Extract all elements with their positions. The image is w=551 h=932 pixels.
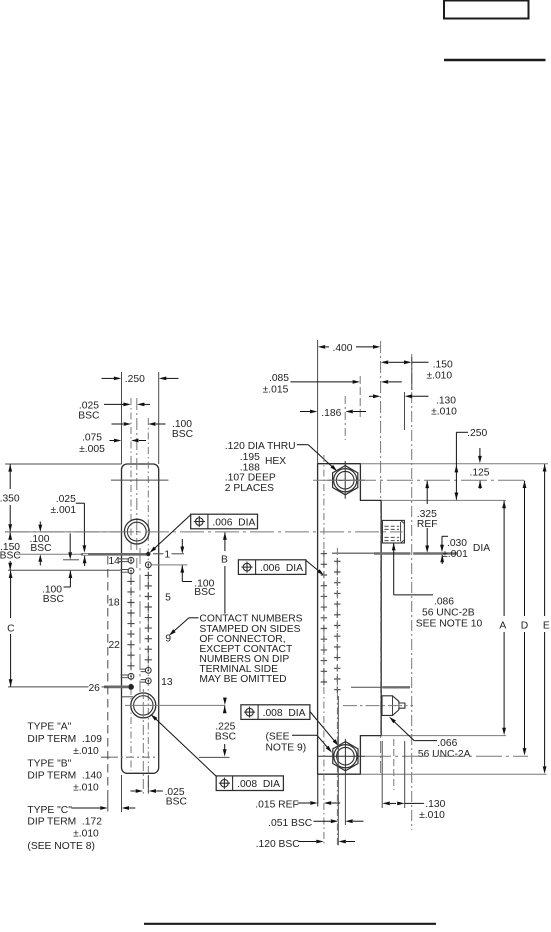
hex top center cross <box>328 479 366 481</box>
mating face line <box>111 479 169 481</box>
svg-text:REF: REF <box>417 519 438 530</box>
dim .225 lower ref line <box>199 756 230 758</box>
bottom hole center vertical <box>142 689 144 794</box>
bottom hole center ext line <box>125 704 225 706</box>
dim .025 terminal thickness <box>76 502 85 504</box>
contact 1 filled circle <box>146 552 150 556</box>
svg-text:C: C <box>7 623 15 634</box>
right view contact plus marks column 2 <box>334 558 340 564</box>
dim .130 top <box>369 395 371 397</box>
dim .186 <box>300 411 310 413</box>
svg-text:56 UNC-2A: 56 UNC-2A <box>418 749 471 760</box>
svg-text:±.010: ±.010 <box>73 746 99 757</box>
fcf .006 DIA upper <box>191 514 258 529</box>
terminal pin contact 1 <box>82 553 148 556</box>
title block box top right <box>444 1 529 19</box>
center line contact column 14-26 <box>130 398 132 771</box>
hex center ext to D <box>313 479 528 481</box>
dim .350 <box>9 464 11 489</box>
ext step bottom <box>381 735 506 737</box>
svg-text:BSC: BSC <box>215 732 237 743</box>
svg-text:±.015: ±.015 <box>263 385 289 396</box>
type C leader arrow <box>72 807 101 809</box>
svg-text:BSC: BSC <box>30 543 52 554</box>
hex bottom axis ext below <box>344 774 346 825</box>
fcf4 leader to bottom hole <box>154 717 216 776</box>
svg-text:±.010: ±.010 <box>73 829 99 840</box>
svg-text:B: B <box>221 554 228 565</box>
svg-text:E: E <box>543 620 550 631</box>
dim C <box>9 571 13 578</box>
svg-text:DIP TERM .109: DIP TERM .109 <box>27 734 102 745</box>
dim .100 BSC mid arrows <box>69 534 71 553</box>
svg-text:BSC: BSC <box>78 410 100 421</box>
svg-text:A: A <box>499 620 506 631</box>
ext line 404.5 upper <box>404 392 406 430</box>
svg-text:±.001: ±.001 <box>50 505 76 516</box>
svg-text:±.010: ±.010 <box>419 810 445 821</box>
retention washer bottom <box>351 686 383 688</box>
svg-text:.008 DIA: .008 DIA <box>237 779 280 790</box>
jackscrew axis line <box>343 705 413 707</box>
dim .325 REF <box>425 481 429 488</box>
fcf .008 DIA lower <box>216 776 283 791</box>
svg-text:.086: .086 <box>434 596 454 607</box>
svg-text:DIP TERM .140: DIP TERM .140 <box>27 770 102 781</box>
dim E <box>543 464 547 471</box>
svg-text:.075: .075 <box>82 433 102 444</box>
svg-text:±.010: ±.010 <box>426 370 452 381</box>
center line top hole vertical <box>136 398 138 568</box>
bottom mounting hole <box>131 693 156 718</box>
svg-text:.130: .130 <box>425 799 445 810</box>
dim .086 leader <box>392 543 396 550</box>
svg-text:.400: .400 <box>332 343 352 354</box>
svg-text:.186: .186 <box>321 408 341 419</box>
dim B line <box>223 532 227 539</box>
svg-text:1: 1 <box>164 550 170 561</box>
dim .100 BSC top arrows <box>112 423 124 425</box>
right view outline <box>318 464 382 775</box>
svg-text:±.010: ±.010 <box>73 783 99 794</box>
dim .250 right <box>456 431 468 433</box>
svg-text:MAY BE OMITTED: MAY BE OMITTED <box>199 674 286 685</box>
dim .400 <box>318 345 325 349</box>
row15 ext line <box>8 569 121 571</box>
svg-text:BSC: BSC <box>166 796 188 807</box>
ext left edge below <box>317 774 319 806</box>
svg-text:.250: .250 <box>467 428 487 439</box>
svg-text:BSC: BSC <box>194 587 216 598</box>
svg-text:.150: .150 <box>433 359 453 370</box>
svg-text:.051 BSC: .051 BSC <box>268 818 313 829</box>
svg-text:.125: .125 <box>469 467 489 478</box>
svg-text:.030: .030 <box>447 538 467 549</box>
body center line between holes <box>139 548 141 692</box>
ext line body right edge above <box>158 372 160 464</box>
svg-text:BSC: BSC <box>172 429 194 440</box>
ext line body top left <box>5 463 122 465</box>
ext body left edge below <box>121 775 123 812</box>
ext col2 below <box>337 696 339 845</box>
svg-text:.120 DIA THRU: .120 DIA THRU <box>225 441 296 452</box>
horizontal rule top right <box>444 59 546 62</box>
svg-text:2 PLACES: 2 PLACES <box>225 483 274 494</box>
svg-text:.015 REF: .015 REF <box>255 799 299 810</box>
svg-text:TYPE "B": TYPE "B" <box>27 758 71 769</box>
label 1 with dashes <box>153 553 164 555</box>
ext 404.7 below <box>404 741 406 808</box>
ext body top right <box>360 463 548 465</box>
center line contacts col2 right view <box>336 548 338 845</box>
center line jackscrew axis <box>411 354 413 830</box>
svg-text:DIA: DIA <box>473 543 490 554</box>
cavity line bottom <box>122 696 134 698</box>
ext step top <box>381 499 506 501</box>
type C dim arrow left <box>122 806 129 810</box>
ext left edge above <box>317 340 319 464</box>
fcf2 leader <box>306 560 320 572</box>
svg-text:56 UNC-2B: 56 UNC-2B <box>422 607 475 618</box>
ext col line below body <box>147 775 149 794</box>
center line contact column 1-13 <box>147 418 149 794</box>
svg-text:NOTE 9): NOTE 9) <box>266 742 307 753</box>
dim .075 arrows <box>110 440 114 442</box>
jackscrew hex nut bottom <box>333 742 358 771</box>
svg-text:HEX: HEX <box>265 456 286 467</box>
ext body bottom right <box>360 773 546 775</box>
center line contacts col1 right view <box>323 455 325 845</box>
fcf .006 DIA lower <box>238 560 306 575</box>
fcf leader to contact 1 <box>154 515 191 550</box>
svg-text:.107 DEEP: .107 DEEP <box>225 472 276 483</box>
svg-text:.130: .130 <box>436 396 456 407</box>
row1 terminal ext line <box>16 553 81 555</box>
dim .225 BSC <box>223 706 227 713</box>
svg-text:.120 BSC: .120 BSC <box>256 839 301 850</box>
hex axis top <box>344 396 346 440</box>
svg-text:.006 DIA: .006 DIA <box>212 517 255 528</box>
svg-text:SEE NOTE 10: SEE NOTE 10 <box>416 618 483 629</box>
dim A <box>502 501 506 508</box>
datum center line through holes <box>5 531 403 533</box>
svg-text:.006 DIA: .006 DIA <box>260 563 303 574</box>
svg-text:BSC: BSC <box>43 594 65 605</box>
row14 short ext line <box>63 559 79 561</box>
jackscrew hex nut top <box>333 466 358 495</box>
svg-text:(SEE: (SEE <box>266 731 290 742</box>
hex leader <box>297 444 309 446</box>
dim .130 bottom <box>382 802 389 806</box>
svg-text:26: 26 <box>88 683 100 694</box>
dim D <box>523 481 527 488</box>
svg-text:14: 14 <box>108 556 120 567</box>
svg-text:5: 5 <box>165 592 171 603</box>
svg-text:.066: .066 <box>437 738 457 749</box>
svg-text:.085: .085 <box>269 373 289 384</box>
dim .150 <box>381 360 388 364</box>
retention washer top <box>332 552 374 554</box>
svg-text:D: D <box>521 620 528 631</box>
jackscrew tip <box>382 696 405 716</box>
fcf3 leader to bottom hex <box>310 712 335 742</box>
ext step edge above <box>359 376 361 420</box>
row26 ext line <box>8 686 89 688</box>
svg-text:TYPE "C": TYPE "C" <box>27 805 72 816</box>
fcf .008 DIA upper-right <box>241 705 310 720</box>
svg-text:±.001: ±.001 <box>442 549 468 560</box>
contact column 14-26 circles pins and plus marks <box>119 559 128 562</box>
dim .125 <box>479 448 481 456</box>
dim .100 BSC right arrows <box>181 539 183 547</box>
dim .085 <box>291 381 353 383</box>
dim .150 BSC <box>8 532 12 539</box>
dim .250 arrow right <box>166 377 179 379</box>
dim .025 BSC arrows <box>104 403 124 405</box>
contact column 1-13 circles and plus marks <box>145 562 151 568</box>
dim .025 BSC bottom arrows <box>131 790 136 792</box>
svg-text:22: 22 <box>108 640 120 651</box>
horizontal rule bottom center <box>144 923 436 925</box>
ext insert left below <box>381 741 383 808</box>
ext line .150 right <box>411 357 413 390</box>
center line connector right view <box>380 341 382 775</box>
svg-text:±.005: ±.005 <box>79 444 105 455</box>
svg-text:.008 DIA: .008 DIA <box>263 708 306 719</box>
ext wall left below <box>317 774 319 806</box>
right view contact plus marks column 1 <box>321 550 327 556</box>
dim .066 leader <box>389 717 396 723</box>
hex bottom center cross <box>317 755 365 757</box>
svg-text:.250: .250 <box>125 374 145 385</box>
dim .250 arrow left <box>102 377 115 379</box>
see note 9 leader <box>292 734 317 736</box>
left view connector body outline <box>122 464 159 773</box>
svg-text:±.010: ±.010 <box>431 407 457 418</box>
svg-text:13: 13 <box>161 677 173 688</box>
svg-text:(SEE NOTE 8): (SEE NOTE 8) <box>27 841 95 852</box>
svg-text:DIP TERM .172: DIP TERM .172 <box>27 817 102 828</box>
threaded insert <box>382 520 404 543</box>
svg-text:.025: .025 <box>56 494 76 505</box>
ext screw line below <box>393 739 395 790</box>
row2 ext line right <box>152 564 188 566</box>
svg-text:TYPE "A": TYPE "A" <box>27 722 71 733</box>
svg-text:18: 18 <box>108 597 120 608</box>
terminal tip line type C <box>107 556 109 795</box>
ext line hole center far left <box>5 531 127 533</box>
hex bottom center ext to D <box>365 755 528 757</box>
type A terminal phantom line <box>101 756 110 758</box>
dim .100 BSC left upper <box>39 522 41 525</box>
svg-text:BSC: BSC <box>0 551 21 562</box>
svg-text:.350: .350 <box>0 493 20 504</box>
note leader arrow <box>189 617 199 619</box>
svg-text:9: 9 <box>165 633 171 644</box>
top mounting hole <box>124 519 149 544</box>
dim .030 <box>442 535 448 537</box>
ext line body left edge above <box>121 372 123 464</box>
